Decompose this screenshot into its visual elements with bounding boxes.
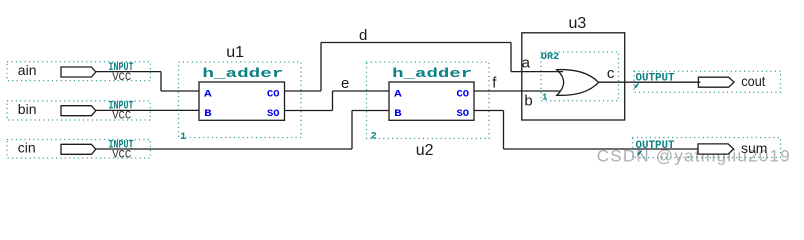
h_adder U2 instance number 2 — [371, 131, 377, 143]
output pin cout symbol — [698, 77, 734, 87]
h_adder U2 pin SO label — [457, 109, 470, 120]
svg-text:d: d — [359, 27, 367, 44]
svg-text:OUTPUT: OUTPUT — [636, 73, 675, 85]
input pin ain VCC value label — [112, 72, 131, 84]
svg-text:u1: u1 — [226, 44, 244, 61]
h_adder U1 pin CO label — [267, 89, 280, 100]
svg-text:cin: cin — [18, 140, 36, 156]
node c label — [607, 65, 615, 82]
h_adder U2 type label — [392, 66, 472, 81]
wire u3.a stub into gate — [511, 71, 563, 73]
svg-text:e: e — [341, 75, 349, 92]
svg-text:A: A — [394, 89, 402, 100]
h_adder U1 type label — [202, 66, 283, 81]
svg-text:CO: CO — [267, 89, 280, 100]
input pin bin symbol — [61, 106, 96, 116]
wire net cout from u3.c — [599, 81, 701, 83]
h_adder U2 pin CO label — [457, 89, 470, 100]
or-gate OR2 selection box — [541, 52, 619, 101]
svg-text:OR2: OR2 — [541, 52, 559, 63]
or-gate U3 body box — [522, 33, 625, 120]
input pin cin selection box — [7, 140, 150, 159]
svg-text:1: 1 — [180, 131, 186, 143]
svg-text:A: A — [204, 89, 212, 100]
svg-text:VCC: VCC — [112, 111, 131, 123]
wire net f from u2.CO to u3.b — [474, 90, 563, 92]
or-gate OR2 shape — [557, 70, 599, 96]
wire net d top horizontal — [321, 42, 511, 44]
output pin sum selection box — [633, 138, 781, 158]
svg-text:2: 2 — [371, 131, 377, 143]
svg-text:u2: u2 — [416, 142, 434, 159]
output pin cout OUTPUT label — [636, 73, 675, 85]
svg-text:u3: u3 — [569, 15, 587, 32]
or-gate OR2 instance number 1 — [542, 92, 548, 102]
svg-text:a: a — [522, 54, 531, 71]
h_adder U2 selection box — [367, 62, 490, 139]
input pin cin VCC value label — [112, 149, 131, 161]
wire net sum from u2.SO — [474, 110, 504, 112]
svg-text:c: c — [607, 65, 615, 82]
node sum label — [741, 140, 767, 156]
h_adder U1 pin B label — [204, 109, 212, 120]
input pin ain symbol — [61, 67, 96, 77]
h_adder U2 body — [389, 82, 474, 120]
node ain label — [18, 62, 37, 78]
svg-text:bin: bin — [18, 101, 37, 117]
wire net e to u2.A — [333, 90, 390, 92]
wire net e from u1.SO — [285, 110, 333, 112]
svg-text:b: b — [524, 93, 532, 110]
h_adder U1 instance number 1 — [180, 131, 186, 143]
h_adder U1 pin A label — [204, 89, 212, 100]
svg-text:OUTPUT: OUTPUT — [636, 140, 675, 152]
wire cin vertical up — [351, 111, 353, 150]
h_adder U1 selection box — [179, 62, 302, 138]
node d label — [359, 27, 367, 44]
svg-text:VCC: VCC — [112, 72, 131, 84]
input pin cin INPUT label — [109, 139, 134, 151]
input pin ain selection box — [7, 62, 150, 81]
or-gate OR2 type label — [541, 52, 559, 63]
svg-text:CO: CO — [457, 89, 470, 100]
input pin ain INPUT label — [109, 62, 134, 74]
wire net sum bottom horizontal — [504, 148, 701, 150]
node cout label — [741, 73, 765, 89]
input pin bin VCC value label — [112, 111, 131, 123]
h_adder U2 pin A label — [394, 89, 402, 100]
node bin label — [18, 101, 37, 117]
svg-text:B: B — [394, 109, 402, 120]
svg-text:VCC: VCC — [112, 149, 131, 161]
node f label — [492, 75, 497, 92]
svg-text:f: f — [492, 75, 497, 92]
wire bin to u1.B — [95, 109, 199, 111]
output pin sum symbol — [698, 144, 734, 154]
wire net d from u1.CO — [285, 90, 322, 92]
wire ain vertical down — [160, 72, 162, 91]
watermark — [597, 147, 790, 166]
svg-text:h_adder: h_adder — [202, 66, 283, 81]
input pin bin selection box — [7, 101, 150, 120]
wire cin horizontal — [95, 148, 352, 150]
wire ain horizontal — [95, 71, 161, 73]
wire ain to u1.A — [161, 90, 199, 92]
svg-text:h_adder: h_adder — [392, 66, 472, 81]
h_adder U2 pin B label — [394, 109, 402, 120]
output pin sum anchor mark — [637, 151, 641, 156]
output pin cout selection box — [634, 71, 781, 92]
output pin cout anchor mark — [634, 83, 638, 88]
svg-text:B: B — [204, 109, 212, 120]
output pin sum OUTPUT label — [636, 140, 675, 152]
svg-text:SO: SO — [457, 109, 470, 120]
svg-text:sum: sum — [741, 140, 767, 156]
input pin bin INPUT label — [109, 101, 134, 113]
h_adder U1 pin SO label — [267, 109, 280, 120]
svg-text:SO: SO — [267, 109, 280, 120]
svg-text:1: 1 — [542, 92, 548, 102]
svg-text:ain: ain — [18, 62, 37, 78]
h_adder U2 instance label u2 — [416, 142, 434, 159]
h_adder U1 body — [199, 82, 285, 120]
wire net d vertical up — [320, 43, 322, 92]
node e label — [341, 75, 349, 92]
or-gate U3 instance label u3 — [569, 15, 587, 32]
wire net d vertical down to u3 — [510, 43, 512, 72]
node a label — [522, 54, 531, 71]
wire net sum vertical down — [503, 111, 505, 150]
input pin cin symbol — [61, 144, 96, 154]
h_adder U1 instance label u1 — [226, 44, 244, 61]
node b label — [524, 93, 532, 110]
node cin label — [18, 140, 36, 156]
wire net e vertical up — [332, 91, 334, 111]
wire cin to u2.B — [352, 110, 389, 112]
svg-text:cout: cout — [741, 73, 765, 89]
